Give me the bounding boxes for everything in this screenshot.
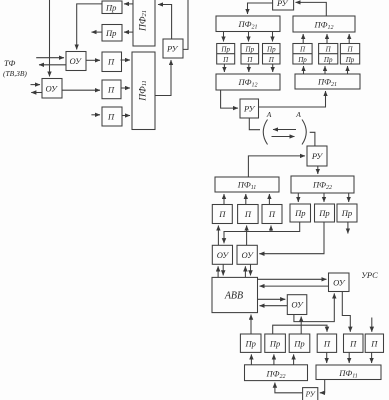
wire OU2 to P b — [62, 89, 100, 91]
wire PF21 to Pr a — [124, 3, 133, 5]
radio link arrows — [273, 129, 296, 131]
wire Pr2 mid to OU2b — [259, 222, 324, 254]
blocks Pr bottom row — [240, 334, 261, 352]
block PF21 mid — [295, 74, 360, 89]
wire PF12tr to RU top — [296, 2, 327, 16]
svg-text:П: П — [346, 46, 353, 54]
wire Pr1 bottom to ABB — [250, 315, 252, 334]
block RU top (cut) — [273, 0, 294, 10]
block RU bottom (cut) — [303, 388, 318, 400]
svg-text:ОУ: ОУ — [70, 56, 83, 66]
wire TF input to OU1 — [36, 57, 64, 59]
wire Pr1 mid to OU1b and P3 — [224, 222, 300, 243]
block PF11 bottom — [316, 365, 381, 380]
wire OU2 out left — [31, 92, 42, 94]
wire external input to P3 bottom — [371, 318, 373, 332]
wire OU1 out left — [39, 64, 66, 66]
wire PF11 bottom to RU bottom — [320, 380, 325, 393]
svg-text:ПФ12: ПФ12 — [238, 77, 258, 89]
wire OU4 to ABB — [260, 305, 288, 307]
svg-text:А: А — [266, 110, 272, 119]
svg-text:ПФ21: ПФ21 — [139, 10, 149, 32]
svg-text:А: А — [295, 110, 301, 119]
block OU3 right — [329, 273, 350, 292]
block ABB — [212, 277, 258, 312]
wire OU1 to P a — [86, 59, 100, 61]
svg-text:РУ: РУ — [311, 151, 324, 161]
wire OU1b up to P1 — [217, 226, 219, 246]
block P c — [102, 107, 122, 126]
svg-text:П: П — [323, 339, 331, 349]
wire external input top-left into OU2 — [49, 0, 51, 77]
wire PF11mid to RU2 — [248, 156, 305, 177]
svg-text:УРС: УРС — [361, 270, 378, 280]
svg-text:(ТВ,ЗВ): (ТВ,ЗВ) — [3, 69, 27, 78]
svg-text:ОУ: ОУ — [242, 250, 255, 260]
svg-text:Пр: Пр — [297, 56, 307, 64]
block PF21 left (vertical, top cut) — [133, 0, 155, 46]
wire Pr a to OU1 — [77, 4, 102, 50]
block PF22 mid — [291, 176, 354, 193]
wire Pr b out left — [92, 31, 103, 33]
wires right smalls up to PF12tr — [302, 34, 304, 44]
svg-text:Пр: Пр — [318, 208, 329, 218]
blocks Pr row mid — [290, 204, 311, 222]
wires left smalls down to PF12 mid — [223, 64, 225, 72]
svg-text:РУ: РУ — [166, 44, 179, 54]
svg-text:Пр: Пр — [293, 339, 304, 349]
block Pr b — [102, 25, 122, 42]
wire Pr2 bottom to P1 bottom — [273, 325, 327, 334]
wires PF22 mid down to Pr row — [297, 193, 299, 202]
svg-text:ТФ: ТФ — [4, 58, 15, 68]
wire ABB to OU4 — [258, 298, 286, 300]
wire P b to PF11 — [121, 87, 131, 89]
svg-text:АВВ: АВВ — [224, 291, 243, 302]
block P a — [102, 52, 122, 72]
wire P c to PF11 — [122, 115, 130, 117]
wire external top to RU left right edge — [183, 0, 188, 49]
svg-text:Пр: Пр — [269, 339, 280, 349]
svg-text:ПФ11: ПФ11 — [338, 368, 358, 380]
svg-text:ОУ: ОУ — [291, 300, 304, 310]
svg-text:П: П — [325, 46, 332, 54]
svg-text:Пр: Пр — [245, 339, 256, 349]
svg-text:П: П — [107, 57, 115, 67]
radio link arcs — [263, 120, 267, 145]
wire RU left to PF21 — [158, 5, 172, 40]
wire Pr3 mid output down — [347, 222, 349, 234]
wire radio link to RU2 — [310, 132, 315, 146]
block RU left — [163, 39, 183, 58]
wire OU3 to P2 bottom — [342, 292, 350, 332]
wire RU1 down to radio link — [249, 118, 260, 130]
svg-text:Пр: Пр — [245, 46, 255, 54]
svg-text:ПФ11: ПФ11 — [139, 80, 149, 102]
wire OU4 to OU3 — [294, 293, 334, 321]
svg-text:ПФ21: ПФ21 — [317, 77, 337, 89]
wire PF11 to RU left — [155, 60, 171, 96]
svg-text:ПФ11: ПФ11 — [237, 180, 257, 192]
svg-text:П: П — [268, 209, 276, 219]
wire Pr3 bottom to OU4 — [300, 317, 302, 335]
svg-text:П: П — [268, 56, 275, 64]
wires PF22 bottom up to Pr bottoms — [250, 354, 252, 364]
blocks P bottom row — [317, 334, 336, 352]
block OU1 left — [66, 52, 86, 71]
block RU mid1 — [240, 99, 259, 118]
svg-text:Пр: Пр — [323, 56, 333, 64]
svg-text:Пр: Пр — [294, 208, 305, 218]
svg-text:РУ: РУ — [276, 0, 289, 8]
wires P row up to PF11 mid — [223, 194, 225, 205]
svg-text:ОУ: ОУ — [333, 278, 346, 288]
block OU1 bottom row — [212, 245, 232, 264]
wire RU2 to PF22 mid — [317, 166, 319, 174]
wire RU1 to PF21 mid — [259, 91, 326, 107]
svg-text:Пр: Пр — [266, 46, 276, 54]
svg-text:Пр: Пр — [105, 28, 116, 38]
wire input to P c — [91, 114, 100, 116]
wires P bottoms down to PF11 bottom — [326, 352, 328, 363]
wire P a to PF11 — [121, 59, 131, 61]
svg-text:РУ: РУ — [305, 390, 316, 399]
block PF12 top-right — [293, 16, 355, 32]
block PF12 mid — [216, 74, 280, 90]
svg-text:П: П — [246, 56, 253, 64]
block OU2 left — [42, 79, 62, 99]
svg-text:П: П — [299, 46, 306, 54]
svg-text:РУ: РУ — [243, 104, 256, 114]
small split blocks left (Pr over P) — [217, 44, 235, 65]
wires PF21 mid up to right smalls — [303, 66, 305, 74]
svg-text:Пр: Пр — [345, 56, 355, 64]
block P b — [102, 80, 121, 99]
wire ABB to OU3 — [258, 278, 327, 280]
svg-text:ПФ22: ПФ22 — [312, 180, 332, 192]
block OU2 bottom row — [237, 245, 257, 264]
block PF21 top-right — [216, 16, 280, 32]
svg-text:ОУ: ОУ — [217, 250, 230, 260]
svg-text:П: П — [244, 209, 252, 219]
blocks P row mid — [212, 205, 232, 224]
small split blocks right (P over Pr) — [293, 44, 312, 65]
block OU4 — [287, 295, 307, 315]
block PF22 bottom — [245, 365, 308, 381]
wire RU top to PF21tr — [248, 3, 273, 14]
svg-text:П: П — [107, 85, 115, 95]
wire PF12mid to RU1 — [221, 90, 238, 108]
wires PF21tr down to left smalls — [223, 32, 225, 42]
svg-text:П: П — [222, 56, 229, 64]
svg-text:Пр: Пр — [105, 3, 116, 13]
svg-text:П: П — [107, 112, 115, 122]
wire input to OU2 — [31, 84, 41, 86]
wire RU bottom to PF22 bottom — [275, 383, 303, 393]
wires OU row / ABB pairs — [217, 266, 219, 277]
wire PF21 to Pr b — [124, 31, 133, 33]
svg-text:Пр: Пр — [341, 208, 352, 218]
wire OU3 to ABB — [260, 285, 329, 287]
svg-text:ПФ12: ПФ12 — [314, 20, 334, 32]
block PF11 left (vertical) — [132, 52, 155, 130]
svg-text:П: П — [370, 339, 378, 349]
block Pr a (top-left) — [102, 1, 122, 14]
block PF11 mid — [215, 177, 279, 192]
wire OU2b to P2 — [246, 226, 248, 246]
svg-text:ОУ: ОУ — [46, 84, 59, 94]
svg-text:П: П — [218, 209, 226, 219]
svg-text:ПФ21: ПФ21 — [238, 19, 258, 31]
svg-text:ПФ22: ПФ22 — [266, 369, 286, 381]
svg-text:П: П — [349, 339, 357, 349]
block RU mid2 — [307, 146, 327, 166]
svg-text:Пр: Пр — [220, 46, 230, 54]
